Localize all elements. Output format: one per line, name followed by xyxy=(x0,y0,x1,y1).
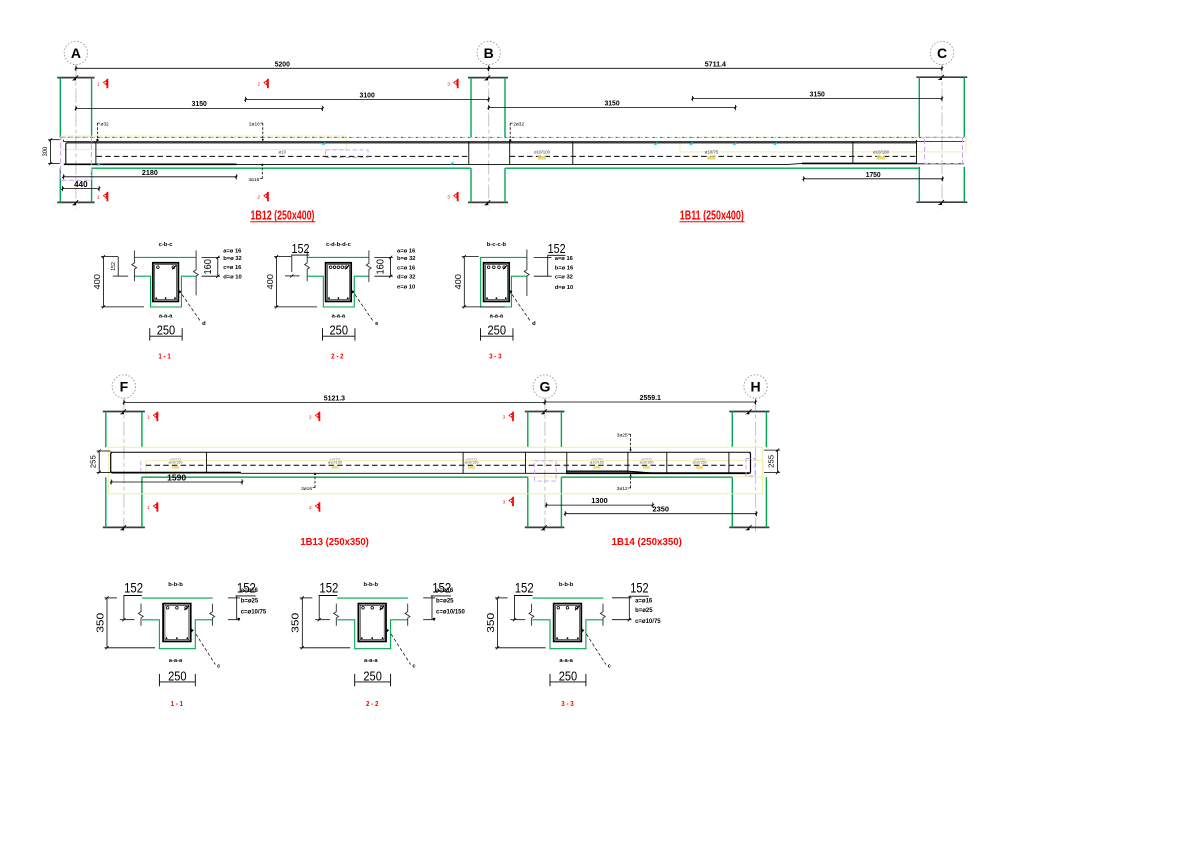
svg-text:250: 250 xyxy=(559,669,578,683)
svg-text:d: d xyxy=(202,321,206,327)
top bar label o32 at A xyxy=(96,121,109,141)
dimension 250 section width 1 - 1 xyxy=(159,669,195,686)
dimension 250 section width 2 - 2 xyxy=(323,324,355,341)
stirrup leader 1 - 1 xyxy=(178,289,206,327)
column A xyxy=(57,75,94,205)
svg-text:c=ø 16: c=ø 16 xyxy=(397,266,416,272)
beam dividers (elevation 2) xyxy=(206,452,208,473)
grid centerline C xyxy=(941,65,943,210)
beam vertical divider at col C left face xyxy=(916,140,918,164)
slab break marks 3 - 3 xyxy=(529,604,534,626)
svg-text:ø10/150: ø10/150 xyxy=(328,461,342,465)
bar schedule labels 1 - 1 xyxy=(223,249,242,281)
svg-text:3ø16: 3ø16 xyxy=(301,486,312,492)
grid centerline H xyxy=(755,398,757,534)
svg-text:a-a-a: a-a-a xyxy=(559,658,573,664)
svg-text:250: 250 xyxy=(363,669,382,683)
svg-text:3150: 3150 xyxy=(192,99,207,108)
svg-text:c=ø 32: c=ø 32 xyxy=(555,274,573,280)
slab break marks 1 - 1 xyxy=(132,250,137,281)
svg-text:A: A xyxy=(71,45,81,61)
beam top rebar with end hook xyxy=(66,143,917,164)
beam title 1B11 (250x400) xyxy=(679,208,744,222)
slab break marks 2 - 2 xyxy=(305,250,310,281)
2350 bottom bar (thick) xyxy=(566,472,749,474)
beam title 1B12 (250x400) xyxy=(250,208,315,222)
svg-text:ø10/150: ø10/150 xyxy=(590,461,604,465)
svg-text:2 - 2: 2 - 2 xyxy=(331,351,344,360)
svg-text:1B13 (250x350): 1B13 (250x350) xyxy=(300,537,369,548)
svg-text:G: G xyxy=(539,379,550,395)
beam bottom with 1590 bar (thick) xyxy=(112,472,241,474)
svg-text:152: 152 xyxy=(515,580,534,595)
svg-text:3: 3 xyxy=(503,414,506,419)
stirrup spacing labels (elevation 2) xyxy=(169,457,183,468)
beam section rectangle 1 - 1 xyxy=(153,263,179,302)
svg-text:400: 400 xyxy=(453,274,463,290)
dimension 152 right 2 - 2 xyxy=(423,580,451,621)
dimension 152 left 2 - 2 xyxy=(315,580,338,621)
dimension 152 left 1 - 1 xyxy=(120,580,143,621)
svg-text:250: 250 xyxy=(330,324,349,338)
dimension 5711.4 between B and C xyxy=(488,59,944,71)
beam 1B13/1B14 top edge xyxy=(111,451,751,453)
dimension 400 section height 1 - 1 xyxy=(92,255,144,309)
dimension 1300 bar 1B14 xyxy=(545,496,654,508)
beam section rectangle 1 - 1 xyxy=(163,604,191,642)
dimension 400 section height 2 - 2 xyxy=(265,255,317,309)
section marker 2 top (beam 1B13) xyxy=(309,412,320,421)
support zone box at column C (dashed magenta) xyxy=(925,137,963,163)
svg-text:1B14 (250x350): 1B14 (250x350) xyxy=(612,537,682,548)
svg-text:3150: 3150 xyxy=(810,90,825,99)
svg-text:a=ø 16: a=ø 16 xyxy=(223,249,242,255)
svg-text:152: 152 xyxy=(548,242,566,256)
svg-text:160: 160 xyxy=(375,259,387,275)
dimension 350 section height 1 - 1 xyxy=(94,596,155,649)
highlight box around beams 1B13/1B14 (outer) xyxy=(109,447,763,494)
svg-text:3100: 3100 xyxy=(360,90,375,99)
beam section rectangle 3 - 3 xyxy=(484,263,510,302)
section marker 2 top (beam 1B12) xyxy=(258,79,269,88)
stirrup leader 2 - 2 xyxy=(385,628,416,670)
svg-text:c=ø10/75: c=ø10/75 xyxy=(635,619,661,625)
svg-text:255: 255 xyxy=(768,455,775,468)
top bar label 2o16 mid-span xyxy=(249,121,264,141)
svg-text:1: 1 xyxy=(147,505,150,510)
dimension 255 left (1B13 depth) xyxy=(90,449,110,474)
svg-text:1: 1 xyxy=(97,81,100,86)
beam vertical divider span BC xyxy=(572,141,574,164)
bottom bar label 3o12 at G-H xyxy=(617,474,632,492)
grid centerline G xyxy=(544,398,546,534)
svg-text:1590: 1590 xyxy=(167,473,186,482)
stirrup leader 3 - 3 xyxy=(509,289,537,327)
svg-text:3150: 3150 xyxy=(604,98,619,107)
support zone box at column A (dashed magenta) xyxy=(61,137,92,180)
svg-text:152: 152 xyxy=(124,580,143,595)
slab soffit green line G-H xyxy=(561,476,732,478)
beam 1B12/1B11 top edge xyxy=(64,141,965,143)
svg-text:ø10/150: ø10/150 xyxy=(693,461,707,465)
dimension 160 drop 2 - 2 xyxy=(374,256,393,278)
dimension 1590 bottom bar 1B13 xyxy=(110,473,243,484)
highlight box around beams 1B13/1B14 (inner) xyxy=(146,460,763,476)
svg-text:a-a-a: a-a-a xyxy=(364,658,378,664)
svg-text:e=ø 10: e=ø 10 xyxy=(397,284,415,290)
svg-text:2: 2 xyxy=(258,81,261,86)
highlight box right (top rebar zone at C) xyxy=(680,137,966,152)
beam vertical divider at col B right face xyxy=(509,141,511,164)
svg-text:b=ø 16: b=ø 16 xyxy=(555,266,574,272)
svg-text:ø10/150: ø10/150 xyxy=(465,461,479,465)
dimension 3150 top bar span B-C xyxy=(488,98,737,110)
column H xyxy=(729,409,769,530)
beam section rectangle 3 - 3 xyxy=(554,604,582,642)
svg-text:1: 1 xyxy=(97,195,100,200)
svg-text:2: 2 xyxy=(309,414,312,419)
dimension 440 xyxy=(61,179,100,191)
slab soffit green line left span xyxy=(92,167,471,169)
section marker 2 bottom (beam 1B13) xyxy=(309,502,320,511)
dimension 152 right 1 - 1 xyxy=(228,580,256,621)
grid bubble H xyxy=(744,375,767,398)
section marker 3 bottom (beam 1B14) xyxy=(503,497,514,506)
svg-text:c-d-b-d-c: c-d-b-d-c xyxy=(326,242,352,248)
bar schedule labels 2 - 2 xyxy=(436,588,466,615)
stirrup leader 3 - 3 xyxy=(581,628,612,670)
section marker 1 top (beam 1B13) xyxy=(147,412,158,421)
magenta tick at start of 1B13 dashes xyxy=(140,461,142,472)
dimension 3100 top bar mid xyxy=(244,90,490,102)
svg-text:3ø25: 3ø25 xyxy=(617,432,628,438)
bottom bar label 3o16 (1590 bar) xyxy=(301,472,316,492)
dimension 152 right 3 - 3 xyxy=(612,581,649,622)
section marker 3 bottom (beam 1B11) xyxy=(447,192,458,201)
svg-text:b-b-b: b-b-b xyxy=(364,582,379,588)
svg-text:b-b-b: b-b-b xyxy=(559,582,574,588)
top bar label 2o32 at B xyxy=(509,121,524,141)
slab top line (green dashes over magenta) xyxy=(61,136,965,138)
beam vertical divider span BC 2 xyxy=(852,141,854,163)
dimension 3150 top bar at C xyxy=(691,90,943,102)
section marker 2 bottom (beam 1B12) xyxy=(258,192,269,201)
beam bottom edge thin xyxy=(237,163,789,165)
rebar symbols in section 1 - 1 xyxy=(155,265,176,299)
svg-text:b=ø 32: b=ø 32 xyxy=(397,256,416,262)
svg-text:a=ø 16: a=ø 16 xyxy=(397,249,416,255)
svg-text:5200: 5200 xyxy=(275,59,290,68)
dimension 250 section width 3 - 3 xyxy=(550,669,586,686)
beam vertical divider at col A face xyxy=(95,141,97,164)
beam vertical divider at col B left face xyxy=(468,141,470,164)
svg-text:3ø12: 3ø12 xyxy=(617,486,628,492)
dimension 2350 bar 1B14 xyxy=(564,505,758,517)
rebar symbols in section 1 - 1 xyxy=(166,606,189,639)
slab soffit green line F-G xyxy=(142,476,528,478)
dimension 2559.1 between G and H xyxy=(544,393,757,405)
dimension 350 section height 2 - 2 xyxy=(290,596,351,649)
svg-text:a-a-a: a-a-a xyxy=(159,314,173,320)
beam 1B13 left end hook xyxy=(111,453,113,473)
svg-text:B: B xyxy=(484,45,494,61)
svg-text:400: 400 xyxy=(92,274,102,290)
svg-text:1B11 (250x400): 1B11 (250x400) xyxy=(680,208,744,222)
svg-text:ø10/150: ø10/150 xyxy=(640,461,654,465)
section marker 3 top (beam 1B14) xyxy=(503,412,514,421)
grid bubble B xyxy=(477,41,500,64)
dimension 152 slab depth 3 - 3 xyxy=(534,242,566,276)
svg-text:350: 350 xyxy=(94,613,106,633)
svg-text:152: 152 xyxy=(111,262,117,271)
section marker 1 bottom (beam 1B13) xyxy=(147,502,158,511)
svg-text:2ø16: 2ø16 xyxy=(249,121,260,127)
svg-text:1B12 (250x400): 1B12 (250x400) xyxy=(251,208,315,222)
svg-text:3: 3 xyxy=(447,195,450,200)
dimension 250 section width 1 - 1 xyxy=(150,324,182,341)
dimension 5121.3 between F and G xyxy=(123,393,546,405)
svg-text:a-a-a: a-a-a xyxy=(169,658,183,664)
svg-text:250: 250 xyxy=(157,324,176,338)
beam bottom bar step xyxy=(788,163,802,164)
svg-text:c=ø 16: c=ø 16 xyxy=(223,265,242,271)
svg-text:c=ø10/150: c=ø10/150 xyxy=(436,609,466,615)
grid bubble A xyxy=(64,41,87,64)
svg-text:H: H xyxy=(751,379,761,395)
dimension 152 slab depth 1 - 1 xyxy=(111,257,128,277)
svg-text:b=ø25: b=ø25 xyxy=(436,598,454,604)
svg-text:3ø16: 3ø16 xyxy=(248,177,259,183)
dimension 250 section width 3 - 3 xyxy=(481,324,513,341)
svg-text:152: 152 xyxy=(630,581,648,596)
svg-text:ø10: ø10 xyxy=(279,150,287,155)
section cut 2 - 2 of 1B12 : slab green outline xyxy=(307,256,369,258)
svg-text:152: 152 xyxy=(292,242,310,256)
svg-text:c-b-c: c-b-c xyxy=(159,242,174,248)
column C xyxy=(916,75,967,205)
svg-text:3: 3 xyxy=(503,499,506,504)
svg-text:b=ø 32: b=ø 32 xyxy=(223,256,242,262)
beam bottom edge with 2180 bottom bar (thick) xyxy=(64,163,237,165)
svg-text:ø32: ø32 xyxy=(100,121,109,127)
dimension 1750 bottom bar xyxy=(803,170,944,181)
svg-text:b-b-b: b-b-b xyxy=(168,582,183,588)
svg-text:ø10/100: ø10/100 xyxy=(534,150,551,155)
dimension 5200 between A and B xyxy=(75,59,490,71)
svg-text:1 - 1: 1 - 1 xyxy=(158,351,171,360)
beam bottom edge with 1750 bottom bar (thick) xyxy=(802,162,916,164)
slab break marks 3 - 3 xyxy=(524,249,529,296)
column B xyxy=(468,75,508,205)
beam section rectangle 2 - 2 xyxy=(358,604,386,642)
beam section rectangle 2 - 2 xyxy=(326,263,352,302)
dimension 250 section width 2 - 2 xyxy=(355,669,391,686)
section cut 2 - 2 of 1B13/14 : slab green outline xyxy=(337,597,408,599)
svg-text:1300: 1300 xyxy=(591,496,608,505)
section marker 1 bottom (beam 1B12) xyxy=(97,192,108,201)
svg-text:a=ø16: a=ø16 xyxy=(241,588,259,594)
svg-text:d=ø 32: d=ø 32 xyxy=(397,274,416,280)
rebar symbols in section 2 - 2 xyxy=(361,606,384,639)
grid bubble C xyxy=(930,41,953,64)
bar schedule labels 3 - 3 xyxy=(635,598,661,625)
column G xyxy=(525,409,565,530)
svg-text:255: 255 xyxy=(90,455,97,468)
zone box at beam 1B14 end (dashed magenta) xyxy=(746,459,755,477)
dimension 3150 top bar span A xyxy=(75,99,324,111)
slab break marks 1 - 1 xyxy=(138,604,143,626)
svg-text:b=ø25: b=ø25 xyxy=(241,598,259,604)
svg-text:2559.1: 2559.1 xyxy=(640,393,661,402)
svg-text:a-a-a: a-a-a xyxy=(332,314,346,320)
bar schedule labels 2 - 2 xyxy=(397,249,416,291)
rebar symbols in section 2 - 2 xyxy=(328,265,349,299)
section cut 1 - 1 of 1B13/14 : slab green outline xyxy=(142,597,213,599)
svg-text:1: 1 xyxy=(147,414,150,419)
section cut 3 - 3 of 1B12 : slab green outline xyxy=(481,257,527,307)
beam bottom thin (elevation 2) xyxy=(241,472,751,474)
svg-text:1750: 1750 xyxy=(866,170,881,179)
svg-text:250: 250 xyxy=(488,324,507,338)
grid bubble F xyxy=(112,375,135,398)
svg-text:2 - 2: 2 - 2 xyxy=(366,699,379,708)
svg-text:2: 2 xyxy=(258,195,261,200)
svg-text:a=ø16: a=ø16 xyxy=(436,588,454,594)
svg-text:350: 350 xyxy=(485,613,497,633)
svg-text:3: 3 xyxy=(447,81,450,86)
svg-text:152: 152 xyxy=(319,580,338,595)
svg-text:2: 2 xyxy=(309,505,312,510)
svg-text:400: 400 xyxy=(265,274,275,290)
grid centerline B xyxy=(488,65,490,210)
svg-text:d=ø 10: d=ø 10 xyxy=(223,274,242,280)
svg-text:d: d xyxy=(532,321,536,327)
cyan revision marks xyxy=(322,142,325,145)
dimension 400 section height 3 - 3 xyxy=(453,255,505,309)
svg-text:250: 250 xyxy=(168,669,187,683)
highlight box left (top rebar 5200 zone) xyxy=(61,136,346,149)
svg-text:b-c-c-b: b-c-c-b xyxy=(487,242,507,248)
column F xyxy=(103,409,145,530)
1300 bottom bar at G xyxy=(566,470,628,472)
svg-text:2350: 2350 xyxy=(653,505,670,514)
svg-text:ø10/75: ø10/75 xyxy=(705,150,719,155)
svg-text:ø10/180: ø10/180 xyxy=(873,150,890,155)
svg-text:C: C xyxy=(937,45,947,61)
svg-text:a-a-a: a-a-a xyxy=(490,314,504,320)
dimension 152 slab depth 2 - 2 xyxy=(285,242,310,278)
section marker 1 top (beam 1B12) xyxy=(97,79,108,88)
dimension 350 section height 3 - 3 xyxy=(485,596,546,649)
beam stirrup centerline dashed (elevation 2) xyxy=(146,464,746,466)
bottom bar label 3o16 span AB xyxy=(248,163,263,183)
svg-text:c=ø10/75: c=ø10/75 xyxy=(241,609,267,615)
beam 1B14 right end hook xyxy=(749,453,751,474)
svg-text:5711.4: 5711.4 xyxy=(705,59,727,68)
svg-text:a=ø 16: a=ø 16 xyxy=(555,256,574,262)
svg-text:F: F xyxy=(120,379,129,395)
dimension 2180 bottom bar xyxy=(62,168,237,179)
svg-text:ø10/150: ø10/150 xyxy=(169,461,183,465)
svg-text:2ø32: 2ø32 xyxy=(513,121,524,127)
section cut 1 - 1 of 1B12 : slab green outline xyxy=(134,256,196,258)
grid centerline F xyxy=(123,398,125,534)
svg-text:300: 300 xyxy=(42,147,49,157)
svg-text:160: 160 xyxy=(202,259,214,275)
svg-text:b=ø25: b=ø25 xyxy=(635,608,653,614)
rebar symbols in section 3 - 3 xyxy=(486,265,507,299)
dimension 160 drop 1 - 1 xyxy=(202,256,221,278)
dimension 255 right (1B14 depth) xyxy=(764,449,780,475)
bar schedule labels 3 - 3 xyxy=(555,256,574,291)
support zone box at column G (dashed magenta) xyxy=(535,461,557,481)
stirrup leader 1 - 1 xyxy=(190,628,221,670)
dimension 300 beam depth xyxy=(42,138,60,165)
lap zone box mid beam (dashed magenta) xyxy=(325,150,368,158)
svg-text:3 - 3: 3 - 3 xyxy=(489,351,502,360)
slab soffit green line right span xyxy=(505,167,919,169)
bar schedule labels 1 - 1 xyxy=(241,588,267,615)
dimension 152 left 3 - 3 xyxy=(510,580,533,621)
rebar symbols in section 3 - 3 xyxy=(556,606,579,639)
svg-text:350: 350 xyxy=(290,613,302,633)
svg-text:d=ø 10: d=ø 10 xyxy=(555,285,574,291)
top bar label 3o25 at G-H xyxy=(617,432,632,451)
svg-text:1 - 1: 1 - 1 xyxy=(171,699,184,708)
svg-text:5121.3: 5121.3 xyxy=(324,393,345,402)
svg-text:a=ø16: a=ø16 xyxy=(635,598,653,604)
beam stirrup centerline (dashed) xyxy=(97,155,469,157)
svg-text:3 - 3: 3 - 3 xyxy=(561,699,574,708)
svg-text:2180: 2180 xyxy=(142,168,158,177)
svg-text:440: 440 xyxy=(74,179,88,189)
stirrup leader 2 - 2 xyxy=(351,289,380,327)
section marker 3 top (beam 1B12) xyxy=(447,79,458,88)
section cut 3 - 3 of 1B13/14 : slab green outline xyxy=(533,597,604,599)
slab break marks 2 - 2 xyxy=(334,604,339,626)
grid bubble G xyxy=(533,375,556,398)
grid centerline A xyxy=(75,65,77,210)
